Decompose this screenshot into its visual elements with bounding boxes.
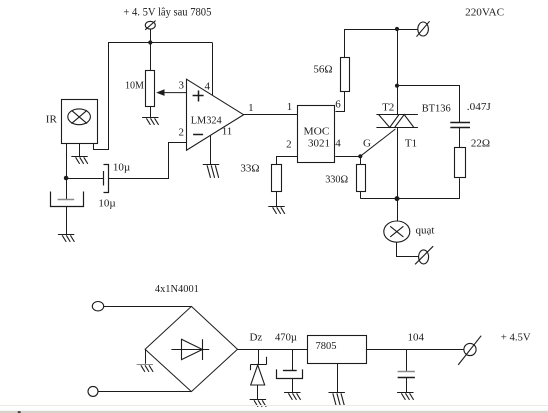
capacitor C5 104 plates (398, 372, 415, 378)
wire IR out lead (66, 143, 68, 178)
bridge diode symbol (171, 339, 209, 360)
resistor 56ohm body (341, 58, 350, 92)
wire gate diagonal (360, 129, 395, 156)
terminal AC neutral (415, 246, 433, 264)
IR sensor module (62, 100, 98, 144)
ground C2 (58, 235, 75, 242)
svg-text:G: G (363, 138, 371, 150)
svg-text:2: 2 (286, 139, 292, 151)
svg-text:IR: IR (46, 113, 58, 125)
ground Dz (250, 400, 267, 407)
wire U3 gnd lead (337, 363, 339, 392)
junction AC top (395, 27, 399, 31)
svg-text:10µ: 10µ (113, 162, 130, 174)
terminal +4.5V out (458, 336, 481, 365)
svg-text:LM324: LM324 (191, 115, 223, 126)
terminal AC in bottom (88, 386, 98, 396)
wire fan to terminal (397, 243, 419, 257)
zener diode Dz (250, 357, 266, 385)
wire dc rail (238, 349, 308, 351)
optocoupler U2 MOC3021 (298, 106, 335, 163)
svg-text:+ 4.5V: + 4.5V (501, 332, 531, 344)
svg-text:BT136: BT136 (422, 103, 451, 115)
wire C2 bottom lead (66, 206, 68, 234)
junction gate node (358, 154, 362, 158)
op-amp minus input mark (193, 134, 203, 136)
wire 330ohm bottom (360, 192, 362, 199)
svg-text:3: 3 (178, 80, 184, 92)
svg-text:2: 2 (178, 127, 184, 139)
wire main drop lower (397, 128, 399, 221)
ground bridge (137, 365, 154, 372)
wire C5 stub (406, 350, 408, 372)
resistor 330ohm body (357, 165, 366, 192)
wire bridge gnd lead (145, 349, 147, 364)
capacitor C4 470u curved plate (277, 369, 303, 378)
window bottom strip (0, 406, 548, 413)
svg-text:Dz: Dz (249, 332, 262, 344)
ground 33ohm (268, 207, 285, 214)
junction IR-caps node (64, 176, 69, 181)
svg-text:3021: 3021 (308, 139, 330, 150)
wire pin4 supply (212, 43, 214, 96)
wire top rail (108, 42, 212, 44)
IR sensor lens (68, 109, 91, 125)
wire 10M bottom lead (150, 106, 152, 117)
wire gate node down (360, 156, 362, 164)
svg-text:11: 11 (222, 126, 233, 138)
ground IR (71, 157, 88, 164)
svg-text:1: 1 (248, 102, 254, 114)
bridge rectifier D1-D4 (145, 306, 237, 391)
ground C5 (397, 393, 414, 400)
wire 10M top lead (150, 43, 152, 71)
junction snubber tap (395, 84, 399, 88)
terminal AC line (417, 21, 430, 37)
junction load node (395, 196, 400, 201)
svg-text:22Ω: 22Ω (471, 137, 490, 149)
wire bottom cross (361, 198, 460, 200)
terminal VCC tap (145, 21, 155, 30)
wire dc out (366, 349, 464, 351)
ground C4 (284, 393, 301, 400)
wire snubber bottom (459, 178, 461, 198)
wire snubber top (398, 86, 460, 123)
ground U1 (203, 165, 219, 178)
svg-text:330Ω: 330Ω (325, 174, 348, 186)
svg-text:10M: 10M (125, 79, 144, 91)
wire pin4 to gate node (335, 156, 360, 158)
wire node to C2 (66, 178, 68, 200)
svg-text:10µ: 10µ (98, 197, 115, 209)
wire node to C1 (66, 178, 103, 180)
capacitor C2 10u plus plate (58, 199, 75, 201)
wire Dz bottom (257, 385, 259, 399)
svg-text:33Ω: 33Ω (240, 162, 259, 174)
wire pin2 lead (277, 157, 298, 165)
regulator U3 7805 (308, 336, 367, 364)
wire snubber mid (459, 128, 461, 148)
wire C1 to op-amp pin2 (109, 143, 187, 179)
wire Dz stub (258, 350, 260, 365)
wire ac in top (104, 306, 192, 308)
capacitor C4 470u plus plate (283, 370, 297, 372)
resistor 10M body (146, 71, 155, 107)
terminal AC in top (92, 302, 103, 311)
wire C4 stub (292, 350, 294, 371)
svg-text:4: 4 (205, 80, 211, 92)
ground 10M (142, 118, 159, 125)
wire 56ohm top (344, 29, 346, 57)
wire AC top (344, 29, 418, 31)
svg-text:+ 4. 5V lây sau 7805: + 4. 5V lây sau 7805 (123, 6, 211, 18)
wire ac in bottom (98, 391, 191, 393)
resistor 33ohm body (272, 165, 282, 192)
triac Q1 BT136 (376, 115, 418, 128)
capacitor C1 10u plus plate (103, 171, 105, 186)
capacitor C1 10u curved plate (104, 165, 109, 193)
svg-text:quạt: quạt (416, 224, 435, 236)
wire main drop upper (397, 29, 399, 114)
svg-text:7805: 7805 (316, 340, 337, 352)
wire 33ohm bottom (276, 192, 278, 206)
svg-text:220VAC: 220VAC (465, 6, 504, 18)
svg-text:6: 6 (335, 99, 341, 111)
svg-text:T2: T2 (382, 102, 394, 114)
svg-text:4x1N4001: 4x1N4001 (155, 283, 199, 295)
wire pin6 lead (336, 92, 345, 112)
op-amp U1 LM324 body (187, 79, 244, 150)
capacitor C2 10u curved plate (51, 192, 84, 207)
svg-text:104: 104 (407, 331, 424, 343)
junction rail-pot (148, 40, 152, 44)
capacitor C3 .047J plates (450, 123, 470, 128)
wire pin11 ground lead (210, 136, 212, 165)
svg-text:4: 4 (335, 138, 341, 150)
ground U3 (329, 393, 345, 406)
wire rail to IR Vcc (94, 43, 109, 150)
wire C4 bottom (292, 379, 294, 393)
svg-text:.047J: .047J (467, 101, 492, 113)
op-amp plus input mark (193, 91, 204, 102)
svg-text:T1: T1 (405, 138, 417, 150)
wire VCC stub (150, 29, 152, 42)
svg-text:MOC: MOC (304, 126, 330, 137)
wire IR ground lead (79, 143, 81, 157)
motor M quat (384, 221, 410, 242)
svg-text:1: 1 (287, 101, 293, 113)
resistor 22ohm body (455, 148, 466, 178)
wire opamp out (244, 114, 298, 116)
svg-text:470µ: 470µ (275, 331, 297, 343)
wiper arrow 10M (156, 89, 186, 96)
wire C5 bottom (406, 378, 408, 393)
svg-text:56Ω: 56Ω (313, 64, 332, 76)
